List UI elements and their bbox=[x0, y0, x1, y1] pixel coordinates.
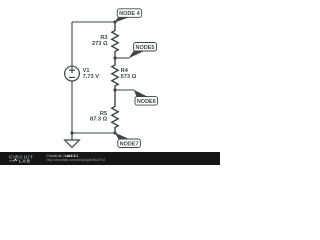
node NODE6 flag bbox=[115, 90, 158, 105]
svg-text:7.73 V: 7.73 V bbox=[83, 74, 100, 80]
svg-text:http://circuitlab.com/c6hq4sja: http://circuitlab.com/c6hq4sjah36u27h2 bbox=[47, 158, 106, 162]
node NODE7 flag bbox=[115, 133, 141, 148]
svg-text:LAB: LAB bbox=[19, 159, 31, 165]
label V1 value bbox=[83, 68, 100, 80]
node NODE5 flag bbox=[115, 43, 157, 59]
label R4 value bbox=[121, 68, 137, 80]
svg-text:NODE 4: NODE 4 bbox=[119, 11, 140, 17]
svg-text:87.3 Ω: 87.3 Ω bbox=[90, 117, 108, 123]
svg-text:573 Ω: 573 Ω bbox=[121, 74, 137, 80]
voltage source V1 bbox=[65, 66, 80, 81]
svg-text:NODE5: NODE5 bbox=[136, 45, 155, 51]
wire bottom horizontal bbox=[72, 132, 115, 134]
svg-text:NODE6: NODE6 bbox=[137, 99, 156, 105]
resistor R4 bbox=[112, 58, 118, 90]
node B junction mid1 bbox=[113, 56, 116, 59]
node NODE 4 flag bbox=[115, 9, 142, 23]
wire left rail lower bbox=[71, 81, 73, 133]
junction bottom-left bbox=[70, 131, 73, 134]
svg-text:273 Ω: 273 Ω bbox=[92, 41, 108, 47]
wire left rail upper bbox=[71, 22, 73, 66]
wire top horizontal bbox=[72, 21, 115, 23]
node C junction mid2 bbox=[113, 88, 116, 91]
ground bbox=[65, 133, 80, 147]
resistor R5 bbox=[112, 90, 118, 133]
resistor R3 bbox=[112, 22, 118, 58]
label R5 value bbox=[90, 111, 108, 123]
node D junction bottom bbox=[113, 131, 116, 134]
footer bar bbox=[0, 152, 220, 165]
svg-text:NODE7: NODE7 bbox=[120, 141, 139, 147]
label R3 value bbox=[92, 35, 108, 47]
footer logo LAB row bbox=[9, 159, 31, 165]
node A junction top bbox=[113, 20, 116, 23]
